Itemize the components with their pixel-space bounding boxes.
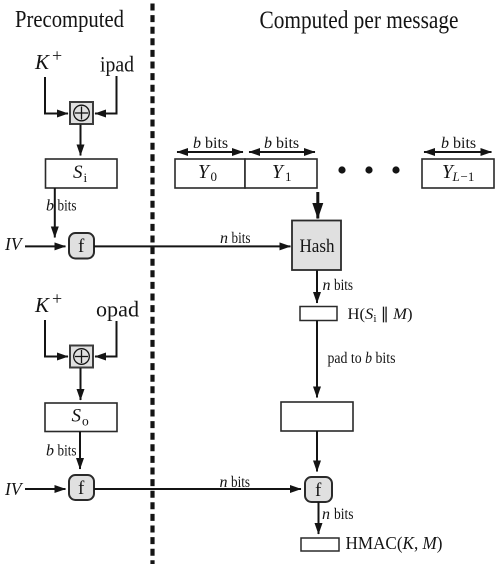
svg-text:bits: bits: [58, 443, 77, 460]
svg-text:Computed per message: Computed per message: [260, 7, 459, 34]
svg-text:pad to b bits: pad to b bits: [328, 350, 396, 367]
svg-text:n: n: [220, 474, 228, 491]
svg-text:IV: IV: [4, 234, 23, 254]
svg-text:i: i: [84, 170, 88, 185]
wire IV to f1: [25, 245, 66, 247]
svg-text:f: f: [315, 480, 322, 501]
svg-text:b bits: b bits: [264, 135, 299, 152]
svg-text:b bits: b bits: [193, 135, 228, 152]
svg-text:opad: opad: [96, 297, 139, 322]
svg-text:H(Si ∥ M): H(Si ∥ M): [348, 306, 413, 325]
svg-text:+: +: [52, 46, 62, 66]
svg-text:+: +: [52, 289, 62, 309]
wire f1 to Hash: [94, 245, 291, 247]
wire xor2 to So: [80, 368, 82, 400]
b bits span arrow over YL-1: [424, 151, 492, 153]
separator dashed line: [150, 4, 154, 564]
hash block: [292, 221, 341, 271]
svg-text:K: K: [34, 293, 50, 317]
svg-text:n: n: [322, 506, 330, 523]
svg-text:n: n: [323, 277, 331, 294]
function f (final, bottom right): [305, 477, 332, 502]
wire K+ to xor1: [45, 77, 68, 114]
block YL-1: [422, 159, 494, 188]
wire So down to f3: [79, 432, 81, 470]
wire f4 down: [318, 502, 320, 534]
svg-text:bits: bits: [334, 506, 354, 523]
wire Y blocks to Hash (bold): [316, 192, 319, 219]
svg-text:f: f: [78, 478, 85, 499]
svg-text:bits: bits: [334, 277, 353, 294]
wire ipad to xor1: [95, 76, 117, 114]
svg-text:n: n: [220, 230, 228, 247]
svg-text:L: L: [452, 169, 460, 184]
svg-text:o: o: [82, 414, 89, 429]
svg-text:b bits: b bits: [441, 135, 476, 152]
output box HMAC: [301, 538, 339, 551]
wire Si down (b bits): [54, 188, 56, 238]
svg-text:ipad: ipad: [100, 52, 134, 77]
svg-text:0: 0: [211, 169, 218, 184]
wire pad to b bits: [316, 321, 318, 398]
svg-text:−1: −1: [461, 169, 475, 184]
svg-text:Hash: Hash: [300, 236, 335, 257]
svg-text:1: 1: [285, 169, 292, 184]
block Y0: [175, 159, 245, 188]
wire f3 to f4: [94, 488, 301, 490]
b bits span arrow over Y1: [249, 151, 315, 153]
wire K+ to xor2: [45, 320, 68, 357]
svg-text:b: b: [46, 198, 54, 215]
wire xor1 to Si: [80, 125, 82, 156]
svg-text:S: S: [72, 406, 82, 427]
wire opad to xor2: [95, 321, 117, 357]
register Si: [46, 159, 118, 188]
svg-text:S: S: [73, 162, 83, 183]
svg-text:b: b: [46, 443, 54, 460]
xor gate 1 (K+ xor ipad): [70, 102, 93, 124]
function f (inner, top left): [69, 233, 94, 259]
padded block: [281, 402, 353, 431]
xor gate 2 (K+ xor opad): [70, 346, 93, 368]
svg-text:IV: IV: [4, 479, 23, 499]
output box H(Si||M): [300, 307, 337, 321]
svg-text:Precomputed: Precomputed: [15, 7, 124, 33]
register So: [45, 403, 117, 432]
b bits span arrow over Y0: [177, 151, 243, 153]
svg-text:bits: bits: [231, 474, 250, 491]
function f (outer, bottom left): [69, 475, 94, 500]
ellipsis dots: [338, 166, 345, 173]
svg-text:bits: bits: [232, 230, 251, 247]
wire Hash down: [316, 271, 318, 304]
svg-text:bits: bits: [58, 198, 77, 215]
block Y1: [245, 159, 317, 188]
svg-text:HMAC(K, M): HMAC(K, M): [346, 533, 443, 554]
wire IV to f3: [25, 488, 66, 490]
svg-text:f: f: [78, 236, 85, 257]
wire padded block to f2: [316, 431, 318, 472]
svg-text:K: K: [34, 50, 50, 74]
